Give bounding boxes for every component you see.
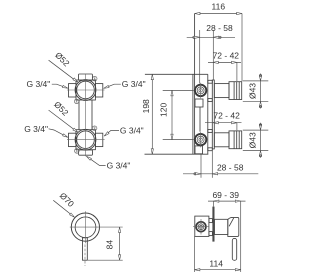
dimension 114 bbox=[195, 269, 241, 271]
lever handle front bbox=[83, 238, 88, 260]
extension lines view 2 bbox=[163, 14, 269, 178]
svg-text:G 3/4": G 3/4" bbox=[107, 160, 131, 170]
screw upper cross bottom-left bbox=[74, 99, 79, 104]
port tab upper-bottom bbox=[208, 99, 213, 102]
svg-text:G 3/4": G 3/4" bbox=[120, 126, 144, 136]
leader Ø52 upper bbox=[49, 60, 77, 81]
screw upper cross top-right bbox=[92, 76, 97, 81]
connecting pipe bbox=[79, 100, 92, 130]
body face / extension line bbox=[194, 14, 196, 155]
centerlines view 3 bbox=[70, 211, 123, 265]
body back line bbox=[192, 74, 194, 154]
upper port circle outer bbox=[75, 80, 96, 101]
lower port pipe bbox=[214, 133, 229, 147]
handle hub bbox=[215, 219, 228, 234]
upper cartridge nut ring bbox=[195, 85, 206, 96]
dimension Ø43 upper bbox=[260, 74, 262, 109]
upper cross: central square bbox=[76, 80, 95, 100]
svg-text:28 - 58: 28 - 58 bbox=[217, 162, 244, 172]
upper cross: right arm bbox=[95, 84, 102, 97]
lower cross: central square bbox=[76, 130, 95, 150]
svg-text:G 3/4": G 3/4" bbox=[122, 79, 146, 89]
svg-text:69 - 39: 69 - 39 bbox=[212, 190, 239, 200]
dimension 72 - 42 lower bbox=[205, 122, 242, 124]
lower port circle outer bbox=[75, 129, 96, 150]
body top edge (extends to 198 dim) bbox=[145, 73, 208, 75]
upper cross: left arm bbox=[69, 84, 77, 97]
dimension 28 - 58 bottom bbox=[183, 173, 258, 175]
svg-text:72 - 42: 72 - 42 bbox=[213, 111, 240, 121]
svg-text:84: 84 bbox=[104, 240, 114, 250]
upper port circle inner bbox=[77, 81, 95, 99]
wall plate side view bbox=[212, 80, 214, 149]
upper port cap bbox=[229, 82, 242, 100]
cartridge vertical centerlines bbox=[200, 83, 202, 99]
centerlines view 1 bbox=[67, 74, 105, 156]
handle boss circle bbox=[75, 217, 96, 238]
svg-text:114: 114 bbox=[209, 259, 223, 269]
centerlines view 4 bbox=[193, 219, 209, 235]
svg-text:116: 116 bbox=[212, 2, 226, 12]
dimension 84 bbox=[119, 227, 121, 260]
dimension 116 bbox=[195, 13, 242, 15]
port tab lower-top bbox=[208, 130, 213, 133]
leader Ø70 bbox=[53, 200, 73, 216]
dimension 69 - 39 bbox=[208, 200, 246, 202]
port tab upper-top bbox=[208, 80, 213, 83]
dimension 72 - 42 upper bbox=[208, 61, 241, 63]
upper port pipe bbox=[214, 84, 229, 98]
svg-text:28 - 58: 28 - 58 bbox=[206, 23, 233, 33]
svg-text:G 3/4": G 3/4" bbox=[24, 124, 48, 134]
lever handle side bbox=[232, 238, 236, 260]
leader Ø52 lower bbox=[49, 110, 78, 132]
handle cap bbox=[228, 217, 239, 236]
svg-text:198: 198 bbox=[141, 99, 151, 113]
dimension 198 bbox=[151, 74, 153, 154]
body bottom edge (extends to 198 dim) bbox=[145, 153, 209, 155]
in-wall body block bbox=[195, 216, 209, 236]
port tab lower-bottom bbox=[208, 148, 213, 151]
box under upper cartridge bbox=[195, 99, 203, 107]
svg-text:120: 120 bbox=[158, 103, 168, 117]
extension line handle bottom bbox=[88, 259, 123, 261]
cap diagonal bbox=[229, 218, 234, 226]
lower cartridge nut ring bbox=[195, 134, 206, 145]
escutcheon outer circle bbox=[71, 213, 99, 241]
dimension 120 bbox=[171, 90, 173, 139]
svg-text:72 - 42: 72 - 42 bbox=[213, 50, 240, 60]
lower cross: left arm bbox=[69, 133, 77, 146]
box under lower cartridge bbox=[195, 146, 203, 154]
wall plate trim (dark) bbox=[212, 207, 214, 242]
lower port cap bbox=[229, 131, 242, 149]
lower cross: bottom arm bbox=[79, 150, 93, 155]
connecting line between cartridges bbox=[199, 107, 201, 132]
svg-text:Ø43: Ø43 bbox=[247, 132, 257, 148]
cartridge nut ring trim bbox=[196, 222, 206, 232]
lower cross: right arm bbox=[95, 133, 102, 146]
svg-text:G 3/4": G 3/4" bbox=[27, 79, 51, 89]
screw lower cross bottom-left bbox=[75, 149, 80, 154]
extension lines view 4 bbox=[195, 201, 241, 272]
tab bottom bbox=[209, 232, 213, 236]
screw lower cross top-right bbox=[92, 126, 97, 131]
upper cross: top arm bbox=[79, 74, 93, 80]
body right edge bbox=[207, 74, 209, 154]
dimension Ø43 lower bbox=[260, 123, 262, 158]
tab top bbox=[209, 219, 213, 223]
dimension 28 - 58 top bbox=[187, 36, 235, 38]
svg-text:Ø43: Ø43 bbox=[247, 83, 257, 99]
lower port circle inner bbox=[77, 131, 95, 149]
